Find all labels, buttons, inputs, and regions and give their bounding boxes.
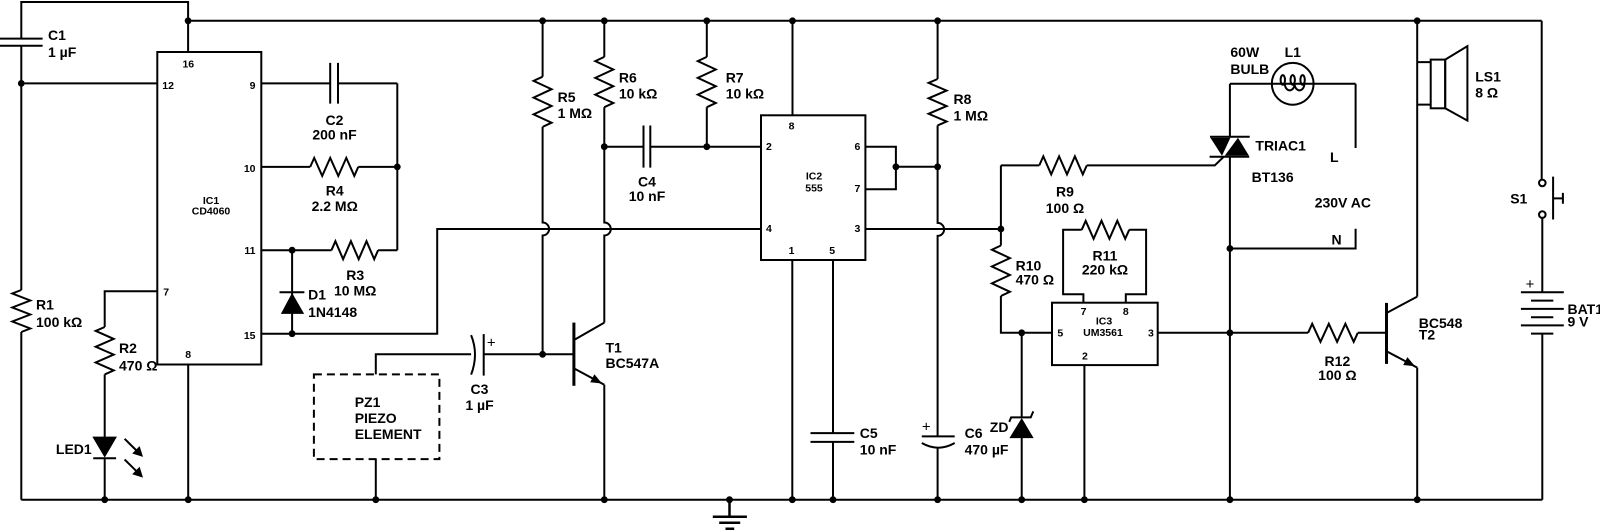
svg-text:8 Ω: 8 Ω	[1475, 85, 1498, 101]
svg-text:470 µF: 470 µF	[965, 441, 1009, 457]
svg-text:10 nF: 10 nF	[629, 188, 666, 204]
node ground junction	[726, 496, 733, 503]
wire R12 to T2 base	[1358, 332, 1387, 334]
node PZ1/bus junction	[372, 496, 379, 503]
node R8/loop junction	[934, 163, 941, 170]
svg-text:BC547A: BC547A	[606, 355, 660, 371]
wire IC2 pin5 to C5	[832, 260, 834, 433]
wire bottom bus	[21, 499, 1542, 501]
node R8/top bus junction	[934, 17, 941, 24]
wire LED1 to bottom bus	[104, 458, 106, 499]
svg-text:3: 3	[855, 223, 861, 235]
svg-text:220 kΩ: 220 kΩ	[1082, 262, 1128, 278]
wire top-left loop / pin16 lead	[21, 2, 188, 52]
node N/triac rail junction	[1227, 245, 1234, 252]
svg-text:BULB: BULB	[1230, 61, 1269, 77]
node pin8/bus junction	[185, 496, 192, 503]
svg-text:T1: T1	[606, 339, 623, 355]
node speaker rail/top bus junction	[1414, 17, 1421, 24]
svg-text:2: 2	[1082, 350, 1088, 362]
wire C4 to IC2 pin2	[650, 146, 761, 148]
svg-text:1: 1	[789, 245, 795, 257]
wire triac rail to L1	[1230, 83, 1272, 85]
node triac rail/bus junction	[1227, 496, 1234, 503]
svg-text:10 kΩ: 10 kΩ	[619, 85, 657, 101]
node IC3 pin2/bus junction	[1081, 496, 1088, 503]
node T2/bus junction	[1414, 496, 1421, 503]
svg-text:10 MΩ: 10 MΩ	[334, 283, 376, 299]
svg-text:1 MΩ: 1 MΩ	[558, 105, 593, 121]
speaker LS1	[1417, 46, 1467, 120]
wire C3 to T1 base	[484, 353, 574, 355]
svg-text:C5: C5	[860, 425, 878, 441]
resistor R1	[12, 290, 30, 332]
svg-text:CD4060: CD4060	[192, 205, 231, 217]
node IC2 pin8/top bus junction	[789, 17, 796, 24]
svg-text:ELEMENT: ELEMENT	[355, 426, 422, 442]
switch S1	[1539, 177, 1563, 220]
lamp L1 60W bulb	[1272, 63, 1314, 105]
svg-text:R3: R3	[346, 267, 364, 283]
svg-text:100 Ω: 100 Ω	[1318, 367, 1356, 383]
diode D1 1N4148	[280, 250, 305, 334]
wire bus to R5	[542, 21, 544, 77]
wire bus to IC2 pin8	[792, 21, 794, 116]
svg-text:60W: 60W	[1230, 44, 1260, 60]
svg-text:10 nF: 10 nF	[860, 441, 897, 457]
wire node to R10	[1000, 229, 1002, 246]
svg-text:PIEZO: PIEZO	[355, 410, 397, 426]
svg-text:100 kΩ: 100 kΩ	[36, 314, 82, 330]
wire C2 to right vertical	[338, 83, 397, 250]
wire bus to R7	[706, 21, 708, 57]
svg-text:1N4148: 1N4148	[308, 304, 357, 320]
svg-text:R5: R5	[558, 89, 576, 105]
wire top bus to S1	[1541, 21, 1543, 180]
capacitor C3 1uF polarized	[471, 334, 484, 376]
wire N terminal to triac rail	[1230, 229, 1356, 249]
svg-text:PZ1: PZ1	[355, 394, 381, 410]
wire speaker rail	[1416, 21, 1418, 297]
wire R6 to C4 node	[603, 107, 605, 147]
svg-text:R4: R4	[326, 183, 344, 199]
capacitor C1	[0, 39, 43, 46]
svg-text:3: 3	[1148, 328, 1154, 340]
svg-text:9 V: 9 V	[1568, 314, 1590, 330]
svg-text:UM3561: UM3561	[1083, 327, 1123, 339]
svg-text:555: 555	[805, 183, 823, 195]
wire R4 to right vertical	[358, 166, 397, 168]
node R9/R10 junction	[998, 226, 1005, 233]
node ZD/pin5 junction	[1018, 329, 1025, 336]
svg-text:4: 4	[766, 223, 772, 235]
svg-text:12: 12	[162, 80, 174, 92]
transistor Q1: T1 BC547A	[574, 323, 604, 386]
svg-text:L: L	[1330, 149, 1339, 165]
resistor R4	[310, 158, 358, 176]
svg-text:IC2: IC2	[806, 171, 823, 183]
node R7/top bus junction	[703, 17, 710, 24]
capacitor C4	[644, 126, 651, 168]
wire bus to R8	[937, 21, 939, 79]
node triac rail/pin3 junction	[1227, 329, 1234, 336]
wire BAT1 to bottom bus	[1541, 334, 1543, 500]
wire IC1 pin8 to bottom bus	[187, 365, 189, 500]
wire R3 to right vertical	[378, 249, 397, 251]
wire pin9 to C2	[261, 82, 330, 84]
wire R10 to IC3 pin5	[1001, 296, 1052, 333]
node pin1/bus junction	[789, 496, 796, 503]
svg-text:R9: R9	[1056, 183, 1074, 199]
svg-text:R8: R8	[954, 91, 972, 107]
resistor R7	[698, 57, 716, 107]
wire IC3 pin3 to R12	[1158, 332, 1308, 334]
wire R9 to TRIAC1 gate	[1087, 157, 1224, 165]
node pin6-7 loop junction	[893, 163, 900, 170]
svg-text:C1: C1	[48, 27, 66, 43]
svg-text:15: 15	[244, 330, 256, 342]
wire IC2 pin1 to bottom bus	[791, 260, 793, 500]
node C6/bus junction	[934, 496, 941, 503]
wire C1 to R1	[20, 46, 22, 290]
wire IC3 pin7 to R11	[1063, 230, 1083, 303]
wire pin10 to R4	[261, 166, 310, 168]
svg-text:TRIAC1: TRIAC1	[1255, 138, 1306, 154]
svg-text:1 µF: 1 µF	[465, 397, 494, 413]
node D1/pin15 junction	[289, 330, 296, 337]
ground	[713, 500, 747, 529]
node top bus / pin16 junction	[185, 17, 192, 24]
svg-text:R2: R2	[119, 340, 137, 356]
wire C4 node to T1 collector (hop)	[604, 147, 611, 323]
svg-text:230V AC: 230V AC	[1315, 195, 1371, 211]
node C5/bus junction	[830, 496, 837, 503]
svg-text:LS1: LS1	[1475, 69, 1501, 85]
svg-text:10: 10	[244, 163, 256, 175]
svg-text:2: 2	[766, 141, 772, 153]
svg-text:ZD: ZD	[990, 419, 1009, 435]
svg-text:R6: R6	[619, 69, 637, 85]
wire pin11 to R3	[261, 249, 331, 251]
resistor R11	[1082, 221, 1130, 239]
resistor R5	[534, 77, 552, 127]
svg-text:T2: T2	[1419, 327, 1436, 343]
svg-text:+: +	[922, 418, 931, 435]
wire R7 to C4 row	[706, 107, 708, 147]
svg-text:100 Ω: 100 Ω	[1046, 200, 1084, 216]
svg-text:470 Ω: 470 Ω	[119, 358, 157, 374]
resistor R3	[332, 241, 379, 259]
wire PZ1 to C3	[376, 354, 471, 374]
wire top supply bus	[188, 20, 1542, 22]
svg-text:C6: C6	[965, 425, 983, 441]
zener diode ZD	[1009, 333, 1033, 500]
svg-text:11: 11	[244, 245, 255, 257]
svg-text:5: 5	[1057, 328, 1063, 340]
svg-text:9: 9	[250, 80, 256, 92]
svg-text:D1: D1	[308, 286, 326, 302]
svg-text:+: +	[487, 335, 496, 352]
node R4/C2 vertical junction	[394, 164, 401, 171]
node R6/top bus junction	[601, 17, 608, 24]
node C3/R5/T1 base junction	[539, 351, 546, 358]
svg-text:470 Ω: 470 Ω	[1016, 272, 1054, 288]
resistor R6	[595, 57, 613, 107]
wire R2 to LED1	[104, 374, 106, 437]
wire S1 to BAT1	[1541, 218, 1543, 292]
wire IC2 pin3 to R9/R10 node	[865, 228, 1001, 230]
svg-text:5: 5	[829, 245, 835, 257]
IC IC1 CD4060 body	[157, 52, 261, 365]
svg-text:S1: S1	[1510, 191, 1527, 207]
wire node up to R9	[1001, 165, 1039, 229]
resistor R10	[992, 246, 1010, 297]
wire bus to R6	[603, 21, 605, 57]
wire R6 node to C4	[604, 146, 643, 148]
svg-text:7: 7	[1081, 306, 1087, 318]
wire T2 emitter to bottom bus	[1416, 368, 1418, 500]
wire IC1 pin15 to IC2 pin4	[261, 229, 761, 334]
svg-text:N: N	[1332, 231, 1342, 247]
node pin11/D1 junction	[289, 247, 296, 254]
svg-text:1 µF: 1 µF	[48, 44, 77, 60]
wire C1 node to IC1 pin12	[21, 82, 157, 84]
capacitor C5	[811, 433, 855, 442]
transistor Q2: T2 BC548	[1387, 297, 1418, 368]
wire PZ1 to bottom bus	[375, 459, 377, 500]
node R7/C4 row junction	[703, 143, 710, 150]
svg-text:1 MΩ: 1 MΩ	[954, 107, 989, 123]
capacitor C6 470uF	[922, 436, 955, 447]
node T1/bus junction	[601, 496, 608, 503]
resistor R2	[96, 327, 114, 374]
wire IC3 pin2 to bottom bus	[1083, 365, 1085, 500]
svg-text:8: 8	[185, 349, 191, 361]
svg-text:R1: R1	[36, 297, 54, 313]
resistor R12	[1308, 324, 1358, 342]
wire R1 to bottom bus	[20, 332, 22, 500]
svg-text:200 nF: 200 nF	[312, 127, 357, 143]
node C1/R1/pin12 junction	[18, 80, 25, 87]
svg-text:7: 7	[163, 287, 169, 299]
wire pin7 to R2	[105, 291, 158, 327]
svg-text:LED1: LED1	[56, 441, 92, 457]
node R6/C4 junction	[601, 143, 608, 150]
svg-text:10 kΩ: 10 kΩ	[726, 85, 764, 101]
svg-text:16: 16	[182, 59, 194, 71]
wire TRIAC1 down rail	[1229, 157, 1231, 500]
svg-text:8: 8	[1123, 306, 1129, 318]
svg-text:8: 8	[789, 120, 795, 132]
svg-text:7: 7	[855, 183, 861, 195]
resistor R9	[1039, 156, 1087, 174]
node LED1/bus junction	[101, 496, 108, 503]
svg-text:L1: L1	[1285, 44, 1302, 60]
LED LED1	[93, 437, 143, 478]
battery BAT1 9V	[1521, 292, 1564, 333]
wire R11 to IC3 pin8	[1126, 230, 1146, 303]
svg-text:+: +	[1526, 276, 1535, 293]
wire R5 to T1 base (hop over pin4 wire)	[543, 127, 550, 354]
wire L1 to L terminal	[1314, 83, 1356, 85]
wire T1 emitter to bottom bus	[603, 385, 605, 500]
wire bulb row to TRIAC1	[1229, 84, 1231, 137]
piezo element PZ1	[314, 374, 440, 459]
wire loop to R8 rail	[896, 166, 938, 168]
svg-text:R7: R7	[726, 69, 744, 85]
svg-text:IC3: IC3	[1096, 315, 1113, 327]
node ZD/bus junction	[1018, 496, 1025, 503]
wire L terminal lead	[1355, 84, 1357, 148]
wire IC2 pin6-pin7 loop	[865, 147, 896, 190]
triac TRIAC1 BT136	[1210, 137, 1250, 157]
resistor R8	[929, 79, 947, 125]
IC IC2 555 body	[761, 115, 865, 260]
svg-text:6: 6	[855, 141, 861, 153]
node R5/top bus junction	[539, 17, 546, 24]
wire R8 down to C6 (hop over pin3 wire)	[938, 125, 945, 436]
svg-text:BT136: BT136	[1252, 169, 1294, 185]
svg-text:C3: C3	[471, 381, 489, 397]
wire C5 to bottom bus	[832, 442, 834, 500]
capacitor C2	[330, 63, 338, 104]
wire C6 to bottom bus	[937, 447, 939, 500]
IC IC3 UM3561 body	[1052, 303, 1158, 365]
svg-text:2.2 MΩ: 2.2 MΩ	[312, 198, 358, 214]
